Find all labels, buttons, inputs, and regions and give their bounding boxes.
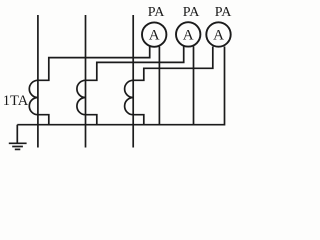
wire: ammeter PA1 right lead to common return	[158, 47, 160, 125]
bus line L1	[37, 15, 39, 148]
svg-text:1TA: 1TA	[3, 93, 29, 109]
wire: CT B top tap up to ammeter PA2 left lead	[86, 46, 184, 80]
wire: CT C bottom tap down to common return	[133, 115, 144, 125]
bus line L3	[132, 15, 134, 148]
current transformer 1TA phase B winding	[77, 80, 86, 114]
wire: ammeter PA2 right lead to common return	[193, 46, 195, 124]
bus line L2	[85, 15, 87, 148]
ammeter PA3	[206, 22, 230, 46]
wire: CT B bottom tap down to common return	[86, 115, 97, 125]
svg-text:PA: PA	[215, 5, 233, 20]
svg-text:PA: PA	[148, 5, 166, 20]
svg-text:A: A	[213, 28, 224, 44]
wire: CT C top tap up to ammeter PA3 left lead	[133, 47, 213, 81]
svg-text:A: A	[149, 28, 160, 44]
current transformer 1TA phase A winding	[29, 80, 38, 114]
ammeter PA2	[176, 22, 200, 46]
svg-text:A: A	[183, 27, 194, 43]
current transformer 1TA phase C winding	[125, 80, 134, 114]
wire: CT A bottom tap down to common return	[38, 115, 49, 125]
ammeter PA1	[142, 22, 166, 46]
svg-text:PA: PA	[183, 5, 201, 20]
ground	[9, 125, 27, 150]
wire: common return bus to ammeter PA3 right lead	[17, 47, 224, 125]
wire: CT A top tap up to ammeter PA1 left lead	[38, 47, 150, 81]
